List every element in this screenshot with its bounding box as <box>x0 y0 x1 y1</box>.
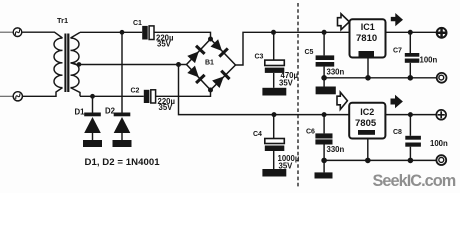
svg-text:C5: C5 <box>305 49 314 56</box>
svg-text:IC2: IC2 <box>360 107 374 117</box>
svg-text:100n: 100n <box>420 56 438 65</box>
svg-text:C6: C6 <box>306 129 315 136</box>
svg-text:SeekIC.com: SeekIC.com <box>373 172 456 190</box>
svg-text:C4: C4 <box>253 131 262 138</box>
svg-text:35V: 35V <box>279 79 294 88</box>
svg-text:D2: D2 <box>105 107 116 116</box>
svg-text:B1: B1 <box>205 60 214 67</box>
svg-text:7805: 7805 <box>355 118 377 129</box>
svg-text:35V: 35V <box>157 39 172 48</box>
svg-text:D1: D1 <box>75 107 86 116</box>
svg-text:Tr1: Tr1 <box>57 16 68 25</box>
svg-text:330n: 330n <box>327 145 345 154</box>
svg-text:C8: C8 <box>393 129 402 136</box>
svg-text:C2: C2 <box>131 88 140 95</box>
svg-text:D1, D2 = 1N4001: D1, D2 = 1N4001 <box>85 157 161 168</box>
svg-text:7810: 7810 <box>356 33 377 44</box>
svg-text:IC1: IC1 <box>361 22 375 32</box>
svg-text:330n: 330n <box>327 68 345 77</box>
svg-text:35V: 35V <box>159 103 174 112</box>
svg-text:C3: C3 <box>255 54 264 61</box>
svg-text:C1: C1 <box>133 20 142 27</box>
svg-text:100n: 100n <box>430 139 448 148</box>
svg-text:C7: C7 <box>393 48 402 55</box>
svg-text:35V: 35V <box>279 162 294 171</box>
